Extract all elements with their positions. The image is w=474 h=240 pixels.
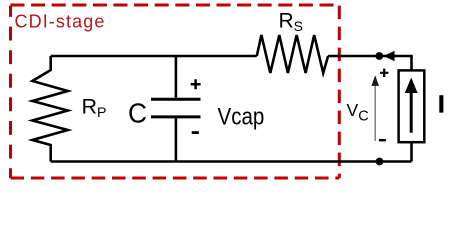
VC measurement arrow — [374, 85, 376, 141]
capacitor C bottom plate — [151, 115, 201, 118]
svg-text:C: C — [128, 97, 147, 128]
node dot bottom — [376, 158, 384, 166]
capacitor C top plate — [151, 98, 201, 101]
capacitor minus sign — [192, 131, 199, 134]
CDI-stage dashed boundary box — [11, 5, 340, 178]
resistor RP — [32, 56, 67, 162]
wire top left (RP top to RS) — [51, 55, 257, 58]
current source I body — [399, 70, 425, 142]
VC plus sign — [380, 69, 388, 77]
node dot top (output node) — [375, 52, 383, 60]
wire top right (RS to current source corner) — [328, 56, 411, 70]
svg-text:Vcap: Vcap — [218, 103, 265, 130]
capacitor plus sign — [191, 79, 201, 89]
label I — [439, 95, 443, 112]
current source I arrow — [410, 92, 413, 133]
capacitor C top lead — [175, 56, 178, 98]
current source bottom lead — [410, 143, 413, 162]
svg-text:CDI-stage: CDI-stage — [15, 12, 106, 32]
VC minus sign — [379, 139, 386, 141]
wire bottom — [51, 160, 412, 163]
current direction arrowhead (pointing left into node) — [383, 51, 394, 61]
capacitor C bottom lead — [175, 118, 178, 161]
resistor RS — [257, 35, 328, 73]
